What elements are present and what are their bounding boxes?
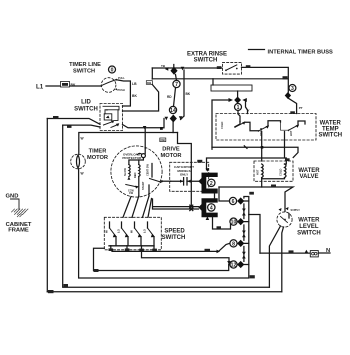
- label TIMER LINE SWITCH: [69, 62, 101, 74]
- label WATER LEVEL SWITCH: [297, 218, 321, 237]
- junction diamond right of 6: [237, 197, 244, 204]
- svg-text:DRIVE: DRIVE: [162, 146, 180, 152]
- wire loop2: [63, 125, 270, 287]
- junction triangle left of 14: [165, 117, 169, 121]
- svg-text:14: 14: [170, 108, 176, 114]
- junction diamond right of 8: [237, 240, 244, 247]
- water valve hot coil: [256, 164, 264, 178]
- node 0: [109, 66, 116, 74]
- wire outer loop left: [46, 119, 48, 292]
- wire speed exit2 to node 12: [142, 251, 230, 262]
- lid switch box: [100, 104, 123, 131]
- svg-text:W: W: [81, 172, 84, 176]
- wire motor right to capacitor: [162, 180, 171, 182]
- timer motor: [71, 154, 86, 169]
- svg-text:WATER: WATER: [298, 168, 320, 174]
- node 10: [230, 218, 237, 226]
- label BU at bus end: [283, 76, 288, 79]
- node 14: [169, 106, 176, 114]
- junction square: [261, 146, 264, 149]
- junction diamond right of 10: [237, 218, 244, 225]
- junction triangle on exit2: [227, 261, 231, 264]
- svg-text:COLD: COLD: [220, 122, 224, 129]
- svg-text:LO: LO: [117, 228, 121, 233]
- wire switch output to lid switch: [116, 80, 130, 106]
- svg-text:WATER: WATER: [298, 218, 320, 224]
- svg-text:PT: PT: [299, 106, 303, 110]
- svg-text:HOT: HOT: [256, 169, 260, 175]
- junction x marks: [190, 205, 193, 211]
- junction diamond above node 1: [234, 97, 241, 104]
- lid switch contacts: [103, 106, 119, 127]
- node 2: [208, 179, 215, 187]
- wire junction 14 down: [172, 122, 174, 133]
- svg-text:TEMP: TEMP: [322, 127, 339, 133]
- wire speed left exit to loop4: [94, 248, 229, 270]
- label T: [217, 226, 222, 229]
- wire timer motor down loop3: [79, 169, 249, 278]
- svg-text:WARM: WARM: [259, 128, 263, 136]
- svg-text:SWITCH: SWITCH: [297, 230, 321, 236]
- junction triangle above bracket 2: [206, 168, 210, 172]
- svg-text:12: 12: [231, 263, 237, 269]
- connector inline on L1: [61, 82, 70, 88]
- label PK: [249, 192, 254, 195]
- svg-text:2: 2: [210, 181, 213, 187]
- label SPEED SWITCH: [162, 229, 186, 242]
- junction triangles on column: [242, 209, 246, 216]
- label blob near box top: [290, 111, 295, 114]
- svg-text:TIMER LINE: TIMER LINE: [69, 62, 101, 68]
- cap export models box: [170, 162, 209, 191]
- wire valve return: [262, 179, 293, 212]
- junction diamond under 14: [170, 115, 177, 123]
- svg-text:CENT SW: CENT SW: [146, 163, 150, 176]
- svg-text:BK: BK: [186, 92, 191, 96]
- svg-text:MOTOR: MOTOR: [87, 155, 108, 161]
- label CABINET FRAME: [6, 222, 32, 234]
- motor cent switch blade: [150, 164, 163, 184]
- wire internal timer buss top: [152, 67, 222, 69]
- junction small triangle left: [165, 67, 168, 71]
- junction diamond under node 3: [285, 92, 291, 99]
- wire top feed to bus: [151, 68, 153, 79]
- junction triangle left: [229, 98, 234, 102]
- wire diamond stubs to bus: [244, 201, 249, 265]
- junction triangle on exit1: [217, 250, 221, 254]
- svg-text:SWITCH: SWITCH: [73, 68, 95, 74]
- speed switch contacts: [105, 222, 156, 249]
- wire block drop to node 1: [237, 91, 239, 97]
- timer line switch: [100, 76, 125, 92]
- timer connector block: [211, 85, 252, 91]
- svg-text:SPEED: SPEED: [164, 229, 185, 235]
- svg-text:TIMER: TIMER: [89, 149, 107, 155]
- motor winding slow: [123, 165, 130, 180]
- water temp contacts: [220, 121, 305, 136]
- label CAP EXPORT MODELS ONLY: [174, 165, 194, 177]
- wire outer loop bottom: [47, 291, 281, 293]
- wire timer motor feed: [79, 133, 178, 155]
- junction diamond on bracket 4: [198, 203, 206, 211]
- svg-text:6: 6: [232, 199, 235, 205]
- svg-text:LID: LID: [81, 100, 91, 106]
- svg-text:LB: LB: [132, 82, 137, 86]
- label WATER VALVE: [298, 168, 320, 180]
- svg-text:VALVE: VALVE: [299, 174, 318, 180]
- wire bracket4 to node 10: [213, 217, 231, 229]
- svg-text:SWITCH: SWITCH: [162, 235, 186, 241]
- label TIMER MOTOR: [87, 149, 108, 162]
- svg-text:START: START: [141, 181, 145, 190]
- svg-text:PUSH: PUSH: [118, 88, 125, 92]
- svg-text:PROTECTOR: PROTECTOR: [122, 156, 142, 160]
- label W: [64, 284, 69, 287]
- wire N stub: [318, 252, 330, 254]
- wire internal timer buss main: [152, 78, 288, 80]
- wire DB diagonal down: [123, 85, 159, 112]
- svg-text:COLD: COLD: [279, 169, 283, 176]
- svg-text:LEVEL: LEVEL: [299, 224, 319, 230]
- label DRIVE MOTOR: [160, 146, 181, 159]
- svg-text:MOTOR: MOTOR: [160, 153, 181, 159]
- label blob: [67, 125, 72, 128]
- node 7: [173, 80, 180, 88]
- motor cw switch blade: [126, 185, 139, 196]
- label BU blob: [197, 160, 202, 163]
- extra rinse switch: [223, 62, 242, 74]
- node 6: [229, 197, 236, 205]
- svg-text:SWITCH: SWITCH: [194, 57, 218, 63]
- junction diamond on bracket 2: [198, 177, 206, 185]
- wire parallel branch x184: [181, 70, 184, 120]
- wire L1 feed: [46, 85, 100, 87]
- label blob at valve corner: [285, 158, 290, 161]
- wire speed exit1 to node 8: [112, 243, 230, 251]
- label out: [246, 65, 251, 68]
- wire motor bottom exits: [139, 177, 149, 197]
- svg-text:N: N: [326, 248, 330, 254]
- wire extra rinse in label: [217, 66, 222, 69]
- label BU: [271, 185, 276, 188]
- label BK blob: [53, 116, 59, 119]
- label GB box: [250, 275, 255, 278]
- svg-text:SWITCH: SWITCH: [74, 107, 98, 113]
- water valve cold coil: [279, 164, 287, 178]
- svg-text:0: 0: [111, 68, 114, 74]
- node 4: [208, 204, 215, 212]
- connector bracket 4: [202, 198, 218, 217]
- wire drive motor top feed: [144, 128, 146, 149]
- svg-text:BK: BK: [71, 83, 76, 87]
- wire valve return to node 6 branch: [219, 186, 262, 188]
- svg-text:ONLY: ONLY: [180, 173, 189, 177]
- terminal label blobs under speed switch: [109, 248, 157, 251]
- wire extra rinse out: [242, 67, 289, 92]
- junction diamond right of 12: [237, 261, 244, 268]
- water valve box: [254, 161, 293, 181]
- label LG: [94, 269, 99, 272]
- svg-text:3: 3: [291, 86, 294, 92]
- connector N: [310, 251, 318, 257]
- wire wls bottom to N and outer loop: [282, 227, 284, 292]
- wire node1 down into temp switch: [238, 111, 240, 122]
- junction triangle B: [181, 67, 185, 71]
- node 3: [289, 85, 296, 93]
- junction square on lid output: [160, 127, 163, 130]
- wire node 7 to node 14: [174, 88, 176, 107]
- svg-text:HI: HI: [105, 230, 109, 233]
- wire right column bus: [244, 197, 249, 278]
- capacitor C1: [171, 178, 201, 185]
- wire branch to bracket4: [178, 133, 192, 207]
- label GY: [205, 249, 211, 252]
- wire L1 vert1 into lid: [47, 119, 100, 125]
- wire pair to bracket 4: [153, 199, 199, 209]
- label DB box: [146, 81, 152, 85]
- junction diamond A: [170, 67, 177, 75]
- svg-text:10: 10: [231, 220, 237, 226]
- wire wls bottom left to loop2: [269, 226, 280, 287]
- water level switch: [277, 207, 292, 227]
- svg-text:BK: BK: [132, 94, 137, 98]
- wire node 12 link: [229, 262, 230, 265]
- label WATER TEMP SWITCH: [318, 121, 342, 139]
- label DB box: [160, 138, 166, 142]
- speed switch box: [104, 217, 161, 250]
- wire top junction row: [173, 65, 175, 69]
- label BK on N line: [289, 250, 294, 253]
- wire junction to node 7: [176, 75, 177, 81]
- wire column link segments: [243, 204, 245, 261]
- wire valve bottoms join: [262, 178, 285, 179]
- ground GND: [6, 194, 29, 217]
- wire node1 left branch: [212, 100, 229, 149]
- junction triangle on N line: [305, 250, 308, 253]
- node 1: [235, 104, 242, 112]
- wire lid out up to junction: [163, 119, 165, 128]
- wire right triangle down: [246, 101, 248, 114]
- wire temp to valve left: [212, 132, 298, 162]
- wire bus stub to block: [212, 79, 214, 85]
- overload protector: [129, 149, 146, 165]
- wire bracket2 to bracket4: [214, 194, 216, 199]
- svg-text:LO: LO: [143, 228, 147, 233]
- wire neutral line: [260, 252, 310, 254]
- label EXTRA RINSE SWITCH: [187, 52, 227, 64]
- svg-text:INTERNAL TIMER BUSS: INTERNAL TIMER BUSS: [268, 49, 334, 55]
- motor winding main: [133, 160, 140, 178]
- wire vert2 into lid: [63, 125, 100, 127]
- svg-text:4: 4: [210, 206, 213, 212]
- junction triangle below bracket 4: [206, 216, 210, 220]
- tick on wire: [244, 146, 247, 149]
- junction triangle right: [242, 98, 247, 102]
- label BK: [48, 290, 54, 293]
- wire node3 to water temp switch: [288, 98, 296, 113]
- svg-text:W: W: [81, 137, 84, 141]
- label LID SWITCH: [74, 100, 98, 113]
- junction triangle feeding drive motor: [143, 126, 147, 129]
- drive motor circle: [111, 146, 162, 197]
- connector bracket 2: [202, 173, 218, 194]
- junction triangle right of 14: [179, 116, 183, 120]
- water temp switch box: [216, 114, 316, 141]
- svg-text:SLOW: SLOW: [123, 168, 127, 176]
- svg-text:RD: RD: [167, 95, 172, 99]
- svg-text:FRAME: FRAME: [8, 228, 29, 234]
- svg-text:RED: RED: [133, 172, 137, 178]
- svg-text:8: 8: [232, 242, 235, 248]
- svg-text:HI: HI: [130, 230, 134, 233]
- wire lid output: [123, 125, 164, 128]
- wire temp to valve right: [207, 132, 287, 170]
- legend internal timer buss: [249, 49, 265, 51]
- svg-text:HOT: HOT: [289, 130, 293, 136]
- node 12: [230, 261, 237, 269]
- wire branch to N line: [249, 215, 260, 254]
- svg-text:L1: L1: [36, 84, 44, 91]
- svg-text:SWITCH: SWITCH: [318, 133, 342, 139]
- node 8: [230, 240, 237, 248]
- label OVERLOAD PROTECTOR: [122, 152, 142, 160]
- wire motor to speed switch funnels: [123, 196, 152, 217]
- svg-text:SUPPLY: SUPPLY: [291, 209, 301, 212]
